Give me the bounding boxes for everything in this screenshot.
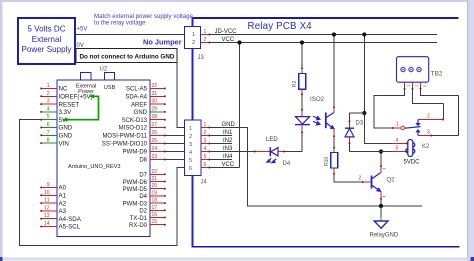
svg-text:External: External [32,35,62,44]
junction D3 branch [362,111,366,115]
svg-text:GND: GND [59,125,73,132]
svg-text:VCC: VCC [222,37,235,43]
wire J3 to J4 blue bus [192,18,194,247]
svg-text:K2: K2 [422,144,430,150]
Arduino left pin stubs [41,89,58,227]
svg-text:AREF: AREF [131,102,147,108]
optocoupler ISO2 [295,95,334,137]
junction VCC drop [237,40,241,44]
svg-text:Relay PCB X4: Relay PCB X4 [248,21,313,32]
svg-text:3: 3 [427,130,430,136]
svg-text:R10: R10 [324,157,330,166]
svg-text:15: 15 [152,219,158,225]
Arduino right pin numbers [152,83,158,225]
svg-text:23: 23 [152,154,158,160]
svg-text:6: 6 [204,162,207,168]
svg-text:3: 3 [47,99,50,105]
svg-text:PWM-D5: PWM-D5 [123,187,148,193]
svg-text:NC: NC [59,86,68,93]
relay contact K2 [401,120,421,136]
svg-text:3: 3 [189,142,192,148]
ISO2 phototransistor [325,113,327,129]
power supply box PS1 [18,18,75,64]
svg-text:TX-D1: TX-D1 [130,216,148,222]
svg-text:VIN: VIN [59,140,69,147]
junction ISO2 collector [332,32,336,36]
Arduino right pin stubs [150,89,166,225]
ISO2 light arrows [313,116,320,120]
svg-text:D3: D3 [356,121,364,127]
svg-text:JD-VCC: JD-VCC [215,29,238,35]
ISO2 LED [301,95,303,109]
green jumper IOREF to 5V [63,94,99,122]
svg-text:1: 1 [396,121,399,127]
svg-text:2: 2 [192,40,195,46]
wire VCC [210,42,437,44]
junction Q2 collector [379,149,383,153]
svg-text:1: 1 [192,32,195,38]
Arduino left pin labels [59,86,93,231]
svg-text:PWM-D9: PWM-D9 [123,150,148,156]
svg-text:3.3V: 3.3V [59,109,73,116]
diode D3 [345,121,364,145]
svg-text:A3: A3 [59,208,67,215]
svg-text:24: 24 [152,146,158,152]
svg-text:5: 5 [396,146,399,152]
svg-text:D4: D4 [283,161,291,167]
relay coil K2 [396,138,431,166]
external power tab [81,73,91,81]
wire ISO2 collector to JD-VCC [333,35,335,107]
svg-text:A2: A2 [59,200,67,207]
chip body [57,80,150,237]
svg-text:29: 29 [152,106,158,112]
wire ISO2 emitter to R10 [333,137,335,147]
svg-text:6: 6 [189,166,192,172]
wire K2 pin1 [392,127,401,129]
wire TB2 pin2 to K2 pin2 riser [413,90,444,104]
svg-text:SDA-A4: SDA-A4 [125,95,147,101]
pin endpoint dots [40,34,444,228]
svg-text:4: 4 [396,138,399,144]
svg-text:Do not connect to Arduino GND: Do not connect to Arduino GND [80,54,175,61]
svg-text:5: 5 [189,158,192,164]
svg-text:31: 31 [152,91,158,97]
junction R2 top on VCC [300,40,304,44]
svg-text:2: 2 [359,175,362,181]
svg-text:SCK-D13: SCK-D13 [122,118,148,124]
wire D9 to J4 pin4 [166,151,185,153]
wire IN1 stub net [210,135,232,137]
svg-text:4: 4 [189,150,192,156]
svg-text:Q2: Q2 [387,178,396,184]
note: match external supply [94,13,194,27]
wire IN3 to LED D4 [210,151,254,153]
svg-text:11: 11 [44,198,49,204]
svg-text:RESET: RESET [59,101,80,108]
svg-text:ISO2: ISO2 [310,96,325,103]
svg-text:LED: LED [266,137,278,143]
svg-text:D4: D4 [139,194,147,200]
net labels J4 [222,122,236,168]
svg-text:14: 14 [44,221,50,227]
resistor R10 [324,153,338,175]
svg-text:6: 6 [47,122,50,128]
svg-text:8: 8 [47,138,50,144]
svg-text:2: 2 [204,130,207,136]
LED D4 [254,137,291,167]
svg-text:RX-D0: RX-D0 [129,223,148,229]
svg-text:A5-SCL: A5-SCL [59,224,81,231]
svg-text:No Jumper: No Jumper [143,37,182,46]
Arduino left pin numbers [44,83,50,227]
svg-text:RelayGND: RelayGND [370,232,399,238]
warning text box [76,49,177,63]
svg-text:1: 1 [189,126,192,132]
connector J3 [184,27,210,61]
svg-text:18: 18 [152,198,158,204]
svg-text:20: 20 [152,183,158,189]
wire VCC drop to J4 pin6 [210,43,240,168]
svg-text:SCL-A5: SCL-A5 [126,87,148,93]
junction JD-VCC drop top [362,32,366,36]
svg-text:26: 26 [152,130,158,136]
wire +5V [75,34,184,36]
wire IN4 stub net [210,159,232,161]
svg-text:1: 1 [47,83,50,89]
svg-text:GND: GND [134,110,148,116]
wire D4 to ISO2 LED cathode [285,133,303,152]
svg-text:GND: GND [59,133,73,140]
svg-text:5: 5 [204,154,207,160]
wire Q2 emitter down [380,200,382,207]
svg-text:19: 19 [152,190,158,196]
svg-text:PWM-D3: PWM-D3 [123,201,148,207]
svg-text:10: 10 [44,190,50,196]
wire 0V [75,49,185,128]
svg-text:1: 1 [204,122,207,128]
resistor R2 [292,43,306,96]
wire K2 pin3 to TB2 [418,135,432,137]
wire TB2 pin1 to K2 contact pin1 [374,90,405,129]
svg-text:17: 17 [152,205,158,211]
wire D8 to J4 pin5 [166,159,185,161]
wire D11 to J4 pin2 [166,135,185,137]
svg-text:J4: J4 [201,180,208,186]
transistor Q2 [372,166,396,200]
svg-text:5VDC: 5VDC [404,160,421,166]
Arduino U2 [57,67,150,237]
svg-text:3: 3 [204,138,207,144]
svg-text:A4-SDA: A4-SDA [59,216,82,223]
svg-text:22: 22 [152,169,158,175]
svg-text:5: 5 [47,114,50,120]
USB tab [104,73,114,81]
svg-text:PWM-D6: PWM-D6 [123,180,148,186]
wire K2 pin2 to TB2 [418,119,444,121]
terminal block TB2 [397,57,443,90]
svg-text:2: 2 [47,91,50,97]
wire D3 top branch [350,113,365,121]
svg-text:13: 13 [44,213,50,219]
wire IN2 stub net [210,143,232,145]
wire D10 to J4 pin3 [166,143,185,145]
ground RelayGND [370,206,399,238]
connector J4 [185,120,211,186]
svg-text:4: 4 [47,106,50,112]
svg-text:D8: D8 [139,158,147,164]
svg-text:U2: U2 [100,67,108,73]
svg-text:9: 9 [47,182,50,188]
relay PCB X4 boundary box [192,18,459,247]
svg-text:30: 30 [152,99,158,105]
svg-text:MISO-D12: MISO-D12 [119,126,148,132]
svg-text:16: 16 [152,212,158,218]
wire Q2 collector up [380,152,382,166]
svg-text:32: 32 [152,83,158,89]
Arduino 5V wire around bottom to J4 pin6 VCC [20,120,185,246]
svg-text:J3: J3 [198,55,205,61]
svg-text:A0: A0 [59,185,67,192]
svg-text:MOSI-PWM-D11: MOSI-PWM-D11 [102,134,147,140]
wire TB2 pin3 to K2 pin3 riser [421,90,459,96]
svg-text:Power Supply: Power Supply [22,45,73,54]
svg-text:21: 21 [152,176,158,182]
wire D3 bottom to coil line [349,144,351,152]
svg-text:2: 2 [427,114,430,120]
svg-text:A1: A1 [59,193,67,200]
wire GND from J4 pin1 to relay ground rail [210,128,422,207]
svg-text:2: 2 [189,134,192,140]
wire JD-VCC drop to D3/K2 [364,35,392,144]
svg-text:R2: R2 [292,80,298,87]
junction emitter-ground rail [379,204,383,208]
svg-text:7: 7 [47,130,50,136]
svg-text:2: 2 [204,37,207,43]
svg-text:USB: USB [104,85,116,91]
svg-text:IOREF(+5V): IOREF(+5V) [59,94,93,101]
svg-text:27: 27 [152,122,158,128]
svg-text:D7: D7 [139,173,147,179]
svg-text:+5V: +5V [77,27,88,33]
Arduino right pin labels [102,87,148,229]
wire R10 to Q2 base [334,175,362,183]
svg-text:D2: D2 [139,209,147,215]
svg-text:TB2: TB2 [431,71,443,78]
svg-text:to the relay voltage: to the relay voltage [94,20,146,27]
svg-text:25: 25 [152,138,158,144]
wire coil pin5 line [350,151,393,153]
svg-text:SS'-PWM-DIO10: SS'-PWM-DIO10 [102,142,148,148]
svg-text:28: 28 [152,114,158,120]
wire JD-VCC [210,34,437,36]
svg-text:12: 12 [44,205,50,211]
svg-text:Arduino_UNO_REV3: Arduino_UNO_REV3 [68,164,121,170]
svg-text:4: 4 [204,146,207,152]
svg-text:1: 1 [204,29,207,35]
svg-text:5 Volts DC: 5 Volts DC [27,25,65,34]
